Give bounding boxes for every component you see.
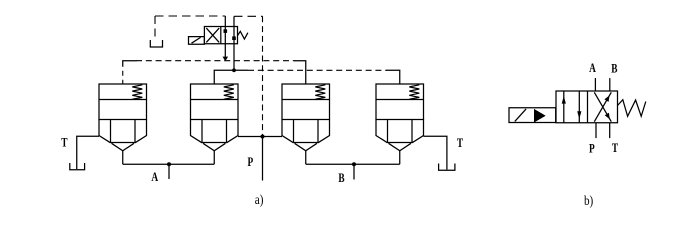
svg-text:T: T bbox=[457, 137, 464, 151]
svg-text:a): a) bbox=[255, 192, 264, 207]
svg-text:A: A bbox=[589, 62, 596, 76]
svg-text:A: A bbox=[151, 170, 158, 184]
svg-text:P: P bbox=[589, 142, 595, 156]
svg-text:B: B bbox=[611, 62, 618, 76]
svg-text:b): b) bbox=[584, 193, 593, 208]
svg-text:T: T bbox=[612, 141, 619, 155]
svg-text:P: P bbox=[247, 155, 253, 169]
svg-text:B: B bbox=[338, 171, 345, 185]
svg-text:T: T bbox=[61, 136, 68, 150]
